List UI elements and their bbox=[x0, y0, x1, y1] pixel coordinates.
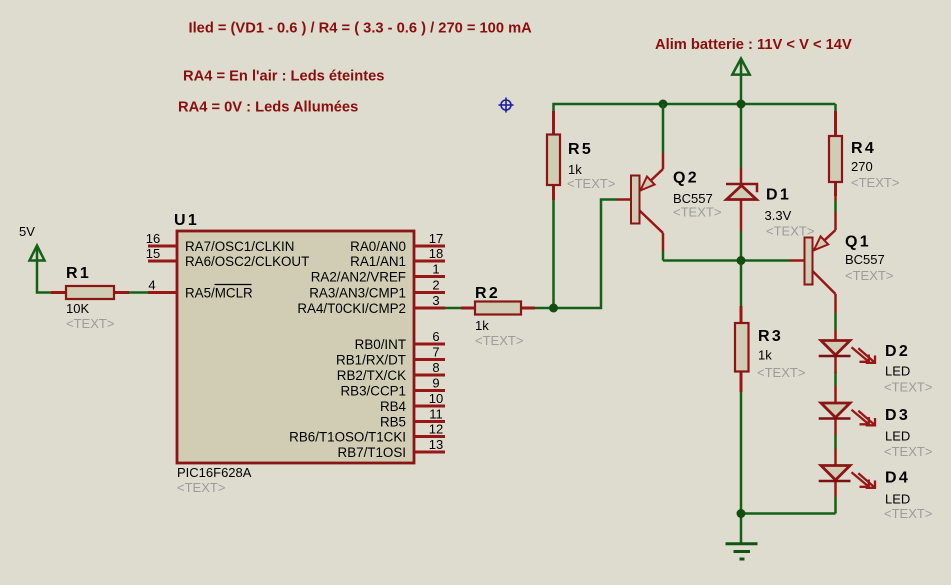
svg-text:270: 270 bbox=[851, 159, 873, 174]
svg-text:18: 18 bbox=[429, 246, 443, 261]
svg-text:Q2: Q2 bbox=[673, 170, 699, 187]
svg-text:R5: R5 bbox=[568, 141, 593, 158]
svg-text:12: 12 bbox=[429, 422, 443, 437]
svg-text:D1: D1 bbox=[766, 187, 791, 204]
svg-text:<TEXT>: <TEXT> bbox=[177, 480, 225, 495]
svg-text:<TEXT>: <TEXT> bbox=[567, 176, 615, 191]
svg-text:<TEXT>: <TEXT> bbox=[884, 444, 932, 459]
svg-text:RA7/OSC1/CLKIN: RA7/OSC1/CLKIN bbox=[185, 239, 294, 254]
svg-text:8: 8 bbox=[432, 360, 439, 375]
svg-text:RA2/AN2/VREF: RA2/AN2/VREF bbox=[311, 270, 406, 285]
svg-text:6: 6 bbox=[432, 329, 439, 344]
svg-text:Q1: Q1 bbox=[845, 234, 871, 251]
svg-text:RA4/T0CKI/CMP2: RA4/T0CKI/CMP2 bbox=[297, 301, 406, 316]
svg-text:RA6/OSC2/CLKOUT: RA6/OSC2/CLKOUT bbox=[185, 254, 309, 269]
svg-text:RA1/AN1: RA1/AN1 bbox=[350, 254, 406, 269]
svg-text:RA4 = 0V : Leds Allumées: RA4 = 0V : Leds Allumées bbox=[178, 100, 358, 116]
svg-text:D2: D2 bbox=[885, 343, 910, 360]
svg-text:11: 11 bbox=[429, 407, 443, 422]
svg-text:1k: 1k bbox=[475, 318, 489, 333]
svg-text:R2: R2 bbox=[475, 285, 500, 302]
svg-text:RB4: RB4 bbox=[380, 399, 407, 414]
svg-text:9: 9 bbox=[432, 376, 439, 391]
svg-text:7: 7 bbox=[432, 345, 439, 360]
svg-text:RA4 = En l'air : Leds éteintes: RA4 = En l'air : Leds éteintes bbox=[183, 69, 384, 85]
svg-text:RB5: RB5 bbox=[380, 415, 406, 430]
svg-text:<TEXT>: <TEXT> bbox=[884, 380, 932, 395]
svg-text:BC557: BC557 bbox=[845, 252, 885, 267]
svg-text:<TEXT>: <TEXT> bbox=[475, 333, 523, 348]
svg-text:LED: LED bbox=[885, 364, 910, 379]
svg-text:RA3/AN3/CMP1: RA3/AN3/CMP1 bbox=[309, 286, 406, 301]
svg-text:R4: R4 bbox=[851, 140, 876, 157]
svg-text:10K: 10K bbox=[66, 301, 89, 316]
svg-text:16: 16 bbox=[146, 231, 160, 246]
svg-text:PIC16F628A: PIC16F628A bbox=[177, 465, 252, 480]
svg-text:4: 4 bbox=[148, 278, 155, 293]
svg-text:13: 13 bbox=[429, 437, 443, 452]
svg-text:RB6/T1OSO/T1CKI: RB6/T1OSO/T1CKI bbox=[289, 430, 406, 445]
svg-text:1: 1 bbox=[432, 262, 439, 277]
svg-text:Iled = (VD1 - 0.6 ) / R4 = ( 3: Iled = (VD1 - 0.6 ) / R4 = ( 3.3 - 0.6 )… bbox=[189, 21, 533, 37]
svg-text:RB3/CCP1: RB3/CCP1 bbox=[341, 384, 407, 399]
svg-text:RA0/AN0: RA0/AN0 bbox=[350, 239, 406, 254]
svg-text:2: 2 bbox=[432, 278, 439, 293]
svg-text:<TEXT>: <TEXT> bbox=[884, 506, 932, 521]
svg-text:17: 17 bbox=[429, 231, 443, 246]
svg-text:RA5/MCLR: RA5/MCLR bbox=[185, 286, 253, 301]
svg-text:RB7/T1OSI: RB7/T1OSI bbox=[338, 445, 406, 460]
svg-text:U1: U1 bbox=[174, 212, 199, 229]
svg-text:1k: 1k bbox=[758, 348, 772, 363]
svg-text:D3: D3 bbox=[885, 407, 910, 424]
svg-text:<TEXT>: <TEXT> bbox=[757, 365, 805, 380]
svg-text:1k: 1k bbox=[568, 162, 582, 177]
svg-text:<TEXT>: <TEXT> bbox=[66, 316, 114, 331]
svg-text:RB0/INT: RB0/INT bbox=[355, 337, 406, 352]
svg-text:3: 3 bbox=[432, 293, 439, 308]
svg-text:<TEXT>: <TEXT> bbox=[766, 224, 814, 239]
svg-text:10: 10 bbox=[429, 391, 443, 406]
svg-text:LED: LED bbox=[885, 492, 910, 507]
svg-text:RB2/TX/CK: RB2/TX/CK bbox=[337, 368, 406, 383]
svg-text:3.3V: 3.3V bbox=[765, 208, 792, 223]
svg-text:D4: D4 bbox=[885, 470, 910, 487]
svg-text:15: 15 bbox=[146, 246, 160, 261]
svg-text:LED: LED bbox=[885, 429, 910, 444]
svg-text:5V: 5V bbox=[19, 224, 35, 239]
svg-text:<TEXT>: <TEXT> bbox=[851, 175, 899, 190]
svg-text:R1: R1 bbox=[66, 265, 91, 282]
svg-text:RB1/RX/DT: RB1/RX/DT bbox=[336, 353, 406, 368]
svg-text:Alim batterie : 11V < V < 14V: Alim batterie : 11V < V < 14V bbox=[655, 37, 852, 53]
svg-text:<TEXT>: <TEXT> bbox=[845, 268, 893, 283]
svg-text:R3: R3 bbox=[758, 328, 783, 345]
svg-text:<TEXT>: <TEXT> bbox=[673, 205, 721, 220]
